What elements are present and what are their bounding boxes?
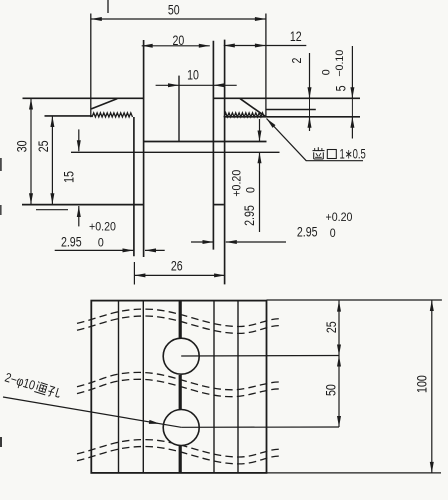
dimension 100 line [431, 300, 433, 473]
dimension 50 plan line [338, 356, 340, 428]
svg-text:25: 25 [324, 321, 339, 333]
svg-text:0: 0 [330, 226, 336, 240]
serration note text chi-kou [313, 150, 325, 152]
hole 2 center line [181, 426, 339, 428]
svg-text:−0.10: −0.10 [334, 50, 346, 77]
plan view outline [91, 301, 266, 473]
dimension 26 extension left [133, 262, 135, 285]
svg-text:5: 5 [334, 85, 349, 91]
right edge vertical (50/12 extension) [265, 14, 267, 118]
dimension 5 line [351, 46, 353, 98]
svg-text:26: 26 [171, 259, 183, 274]
left 2.95 dimension line [55, 249, 134, 251]
svg-text:12: 12 [290, 29, 302, 44]
svg-text:2: 2 [289, 58, 304, 64]
right lower surface [224, 116, 360, 118]
dimension 15 line [78, 129, 80, 151]
scan smudge 1 [0, 158, 2, 171]
serration leader line [267, 119, 307, 161]
right slot wall vertical [212, 41, 214, 250]
plan rib line 1 [118, 301, 120, 473]
right serration teeth [224, 113, 264, 117]
svg-text:15: 15 [61, 171, 76, 183]
right top surface [213, 97, 360, 99]
svg-text:+0.20: +0.20 [326, 210, 353, 224]
dimension 2 line [309, 53, 311, 98]
hole note text [3, 370, 62, 401]
plan top edge extension [267, 299, 442, 301]
left lower surface [45, 115, 93, 117]
break wave band 2 [77, 372, 282, 389]
right inner edge line [266, 109, 315, 111]
left leg outer vertical [133, 117, 135, 256]
center rib vertical [178, 76, 180, 142]
short bottom stub line [36, 209, 68, 211]
plan bottom edge extension [267, 472, 442, 474]
left chamfer slant [91, 99, 117, 109]
left edge vertical (50 extension) [90, 14, 92, 118]
dimension 10 line [156, 84, 237, 86]
plan rib line 3 [213, 301, 215, 473]
hole leader line [3, 397, 181, 427]
svg-text:10: 10 [187, 67, 199, 82]
svg-text:50: 50 [168, 3, 180, 18]
dimension 50 line [91, 18, 266, 20]
slot bottom line [144, 141, 267, 143]
svg-text:+0.20: +0.20 [229, 169, 243, 196]
left clamp top surface [23, 97, 144, 99]
dimension 30 line [30, 99, 32, 205]
dimension 25 line [51, 116, 53, 204]
right 2.95 dimension line [191, 241, 214, 243]
bottom surface left [22, 204, 144, 206]
scan smudge 2 [0, 205, 2, 215]
svg-text:2.95: 2.95 [242, 205, 257, 226]
mid horizontal reference line [71, 151, 280, 153]
right chamfer slant [240, 99, 266, 117]
svg-text:1∗0.5: 1∗0.5 [340, 147, 366, 162]
hole circle 1 [163, 338, 199, 374]
svg-text:50: 50 [324, 384, 339, 396]
stray tick above [107, 0, 109, 13]
hole 1 center line [181, 355, 339, 358]
middle 2.95 dimension line [259, 119, 261, 142]
svg-text:2.95: 2.95 [61, 235, 82, 250]
left slot wall vertical [143, 40, 145, 257]
plan rib line 4 [237, 301, 239, 473]
left serration teeth [92, 113, 133, 117]
svg-text:30: 30 [14, 141, 29, 153]
svg-text:0: 0 [244, 187, 258, 193]
svg-text:25: 25 [36, 141, 51, 153]
svg-text:0: 0 [321, 69, 333, 75]
svg-text:+0.20: +0.20 [89, 220, 116, 234]
svg-text:0: 0 [98, 236, 104, 250]
hole circle 2 [163, 410, 199, 446]
svg-text:100: 100 [415, 375, 430, 393]
dimension 20 line [142, 45, 210, 47]
break wave band 3 [77, 440, 282, 457]
plan center thick line [179, 301, 182, 339]
scan smudge 3 [0, 437, 2, 447]
plan rib line 2 [142, 301, 144, 473]
break wave band 1 [77, 309, 282, 326]
right leg outer vertical [224, 40, 226, 285]
svg-text:2.95: 2.95 [297, 224, 318, 239]
bottom surface right [213, 204, 224, 206]
dimension 26 line [134, 274, 225, 276]
svg-text:20: 20 [173, 33, 185, 48]
dimension 12 line [224, 45, 306, 47]
dimension 25 plan line [338, 301, 340, 356]
